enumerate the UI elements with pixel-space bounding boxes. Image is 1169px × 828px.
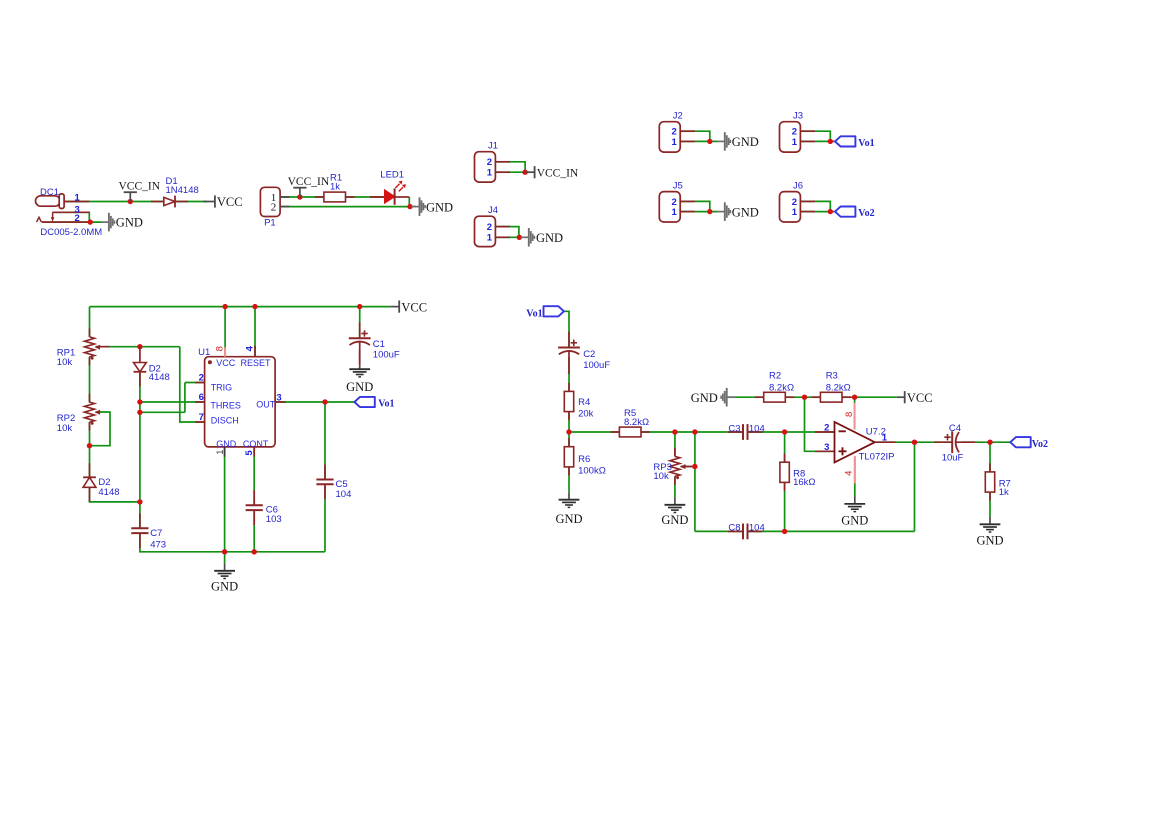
junction RP3 node — [672, 429, 677, 434]
wire J1 pin1 to VCC_IN — [495, 171, 530, 173]
svg-text:1: 1 — [792, 137, 798, 148]
wire C4 to Vo2 — [962, 441, 1010, 443]
junction rail node pin8 — [222, 304, 227, 309]
svg-text:Vo1: Vo1 — [378, 399, 394, 410]
wire R5 to C3 — [641, 431, 743, 433]
junction LED GND node — [407, 204, 412, 209]
junction OUT node — [322, 399, 327, 404]
svg-text:Vo2: Vo2 — [858, 208, 874, 219]
junction DC1 VCC_IN node — [128, 199, 133, 204]
svg-text:VCC: VCC — [401, 300, 427, 314]
wire R8 top — [784, 432, 786, 462]
wire bottom to C8 — [695, 530, 743, 532]
svg-text:Vo1: Vo1 — [526, 309, 542, 320]
potentiometer RP2 — [57, 394, 100, 434]
svg-text:GND: GND — [116, 216, 143, 230]
wire C5 to bottom rail — [324, 484, 326, 552]
wire node to R5 — [569, 431, 619, 433]
wire RP3 riser — [674, 432, 676, 456]
svg-text:GND: GND — [661, 513, 688, 527]
svg-text:U7.2: U7.2 — [866, 427, 886, 438]
svg-text:Vo2: Vo2 — [1032, 439, 1048, 450]
wire RP3 wiper net — [681, 466, 695, 468]
svg-text:473: 473 — [150, 539, 166, 550]
resistor R1 — [315, 172, 355, 202]
junction output node — [912, 440, 917, 445]
svg-text:TRIG: TRIG — [211, 382, 233, 392]
svg-text:LED1: LED1 — [380, 169, 404, 180]
svg-text:C1: C1 — [373, 339, 385, 350]
svg-text:GND: GND — [976, 534, 1003, 548]
resistor R4 — [564, 383, 593, 420]
wire TRIG wire — [185, 382, 205, 384]
svg-text:R3: R3 — [826, 371, 838, 382]
wire node column down to C7 — [139, 402, 141, 528]
resistor R3 — [811, 371, 851, 402]
svg-text:C3: C3 — [728, 423, 740, 434]
wire P1 pin1 to R1 — [280, 196, 384, 198]
wire J3 pin2 bend — [800, 131, 830, 141]
junction RP2 bottom node — [87, 443, 92, 448]
LED LED1 — [370, 169, 409, 204]
wire P1 pin2 bottom to GND — [280, 206, 416, 208]
svg-text:5: 5 — [244, 450, 255, 456]
svg-text:C8: C8 — [728, 523, 740, 534]
junction bias node — [802, 395, 807, 400]
junction Vo2 node — [987, 440, 992, 445]
wire OUT to C5 — [324, 402, 326, 480]
svg-text:VCC: VCC — [216, 358, 236, 368]
junction rail node pin4 — [252, 304, 257, 309]
svg-text:C2: C2 — [583, 349, 595, 360]
svg-text:RESET: RESET — [241, 358, 272, 368]
ground — [346, 366, 373, 395]
svg-text:1: 1 — [672, 207, 678, 218]
junction J2 node — [707, 139, 712, 144]
svg-text:J5: J5 — [673, 180, 683, 191]
potentiometer RP3 — [653, 448, 695, 485]
capacitor C8 — [728, 523, 765, 540]
power port VCC — [897, 391, 933, 405]
wire U1 GND pin down — [224, 447, 226, 552]
resistor R7 — [985, 463, 1011, 500]
svg-text:1: 1 — [487, 168, 493, 179]
wire R4 to node — [568, 412, 570, 447]
svg-text:DC1: DC1 — [40, 187, 59, 198]
svg-text:2: 2 — [487, 222, 492, 233]
wire CONT to C6 — [253, 447, 255, 505]
svg-text:8.2kΩ: 8.2kΩ — [826, 382, 851, 393]
wire RP1 wiper net — [96, 346, 180, 348]
svg-text:16kΩ: 16kΩ — [793, 477, 815, 488]
svg-text:GND: GND — [346, 380, 373, 394]
ground — [841, 497, 868, 528]
svg-text:10k: 10k — [57, 423, 73, 434]
svg-text:R2: R2 — [769, 371, 781, 382]
ground — [412, 197, 454, 216]
svg-text:1: 1 — [215, 450, 225, 455]
svg-text:10k: 10k — [57, 357, 73, 368]
connector J6 — [780, 180, 816, 222]
wire C6 to bottom rail — [253, 510, 255, 552]
svg-text:GND: GND — [732, 135, 759, 149]
power port VCC_IN — [119, 181, 161, 202]
net flag Vo2 — [835, 207, 875, 220]
junction bottom rail node2 — [252, 549, 257, 554]
svg-text:10uF: 10uF — [942, 453, 964, 464]
junction P1 VCC_IN node — [297, 194, 302, 199]
svg-text:100uF: 100uF — [583, 360, 610, 371]
connector J5 — [659, 180, 695, 222]
wire C8 to output column — [748, 530, 915, 532]
svg-text:CONT: CONT — [243, 439, 269, 449]
junction J4 node — [517, 235, 522, 240]
svg-text:J4: J4 — [488, 205, 498, 216]
junction DC1 GND node — [88, 219, 93, 224]
capacitor C4 — [934, 423, 975, 464]
power port VCC_IN — [526, 166, 579, 180]
svg-text:1: 1 — [672, 137, 678, 148]
wire gnd drop 555 — [224, 552, 226, 564]
svg-text:2: 2 — [487, 157, 492, 168]
ground — [717, 202, 759, 221]
diode D1 — [151, 176, 199, 208]
wire R3 to VCC — [842, 396, 897, 398]
potentiometer RP1 — [57, 328, 110, 368]
svg-text:1: 1 — [75, 192, 81, 203]
svg-text:GND: GND — [732, 205, 759, 219]
svg-text:4: 4 — [245, 345, 256, 351]
junction D2 C7 node — [137, 499, 142, 504]
svg-text:1k: 1k — [330, 181, 340, 192]
wire C1 riser — [359, 307, 361, 339]
ground — [661, 497, 688, 527]
wire output to C4 — [875, 441, 952, 443]
junction TRIG node — [137, 410, 142, 415]
svg-text:DISCH: DISCH — [211, 415, 239, 425]
svg-text:GND: GND — [536, 231, 563, 245]
svg-text:1: 1 — [792, 207, 798, 218]
svg-text:GND: GND — [426, 200, 453, 214]
svg-text:P1: P1 — [264, 218, 276, 229]
svg-text:6: 6 — [199, 392, 204, 403]
wire THRES wire — [140, 401, 205, 403]
wire D2 cathode to THRES node — [139, 372, 141, 402]
svg-text:4: 4 — [844, 471, 855, 476]
svg-text:J6: J6 — [793, 180, 803, 191]
wire bottom rail 555 — [140, 533, 325, 551]
net flag Vo2 — [1010, 437, 1048, 450]
svg-text:J2: J2 — [673, 111, 683, 122]
ground — [717, 132, 759, 151]
svg-text:GND: GND — [216, 439, 237, 449]
junction J6 node — [828, 209, 833, 214]
junction J5 node — [707, 209, 712, 214]
wire R6 to gnd — [568, 467, 570, 492]
ground — [976, 517, 1003, 548]
svg-text:GND: GND — [555, 512, 582, 526]
svg-text:10k: 10k — [653, 471, 669, 482]
svg-text:VCC: VCC — [217, 195, 243, 209]
svg-text:20k: 20k — [578, 408, 594, 419]
wire DC1 pin1 to VCC net — [64, 201, 207, 203]
svg-text:3: 3 — [824, 442, 829, 453]
wire link to TRIG — [184, 383, 186, 413]
svg-text:C7: C7 — [150, 528, 162, 539]
wire RP2 to D2 bar — [89, 422, 91, 477]
connector P1 — [260, 187, 289, 228]
svg-text:THRES: THRES — [210, 400, 241, 410]
junction R4 R6 node — [566, 429, 571, 434]
svg-text:VCC_IN: VCC_IN — [537, 168, 579, 180]
svg-text:1k: 1k — [999, 487, 1009, 498]
svg-text:3: 3 — [276, 393, 281, 404]
power port VCC_IN — [288, 176, 330, 197]
ground — [521, 228, 563, 247]
connector J2 — [659, 111, 695, 153]
wire RP3 to gnd — [674, 476, 676, 497]
connector J1 — [475, 141, 511, 183]
svg-text:J1: J1 — [488, 141, 498, 152]
net flag Vo1 — [526, 306, 564, 319]
svg-text:GND: GND — [691, 391, 718, 405]
svg-text:8.2kΩ: 8.2kΩ — [769, 382, 794, 393]
wire DC1 pin2 to GND — [42, 221, 102, 223]
svg-text:8: 8 — [844, 412, 855, 417]
resistor R2 — [755, 371, 795, 402]
junction R8 top node — [782, 429, 787, 434]
junction RP3 wiper node — [692, 464, 697, 469]
resistor R8 — [780, 454, 816, 491]
svg-text:1N4148: 1N4148 — [166, 185, 199, 196]
wire J6 pin1 to Vo2 flag — [800, 211, 835, 213]
svg-text:VCC: VCC — [907, 391, 933, 405]
wire R7 riser — [989, 442, 991, 471]
wire cross link — [140, 411, 185, 413]
svg-text:104: 104 — [749, 523, 765, 534]
wire J5 pin2 bend — [680, 201, 710, 211]
wire R7 to gnd — [989, 492, 991, 517]
DC jack DC1 — [36, 187, 103, 238]
wire U1 pin8 riser — [224, 307, 226, 357]
svg-text:7: 7 — [199, 412, 204, 423]
wire C2 to R4 — [568, 357, 570, 391]
ground — [211, 563, 238, 593]
svg-text:100kΩ: 100kΩ — [578, 465, 606, 476]
wire J1 pin2 bend — [495, 162, 525, 172]
svg-text:100uF: 100uF — [373, 350, 400, 361]
junction J1 node — [522, 170, 527, 175]
wire OUT to Vo1 — [275, 401, 354, 403]
svg-text:8.2kΩ: 8.2kΩ — [624, 417, 649, 428]
wire VCC rail 555 — [90, 306, 391, 308]
ground — [101, 213, 143, 232]
resistor R6 — [564, 438, 606, 476]
capacitor C7 — [131, 513, 166, 550]
svg-text:GND: GND — [841, 514, 868, 528]
wire output feedback drop — [914, 442, 916, 531]
svg-text:4148: 4148 — [149, 372, 170, 383]
capacitor C1 — [349, 322, 400, 365]
svg-text:DC005-2.0MM: DC005-2.0MM — [40, 227, 102, 238]
capacitor C2 — [558, 332, 610, 375]
svg-text:TL072IP: TL072IP — [859, 452, 895, 463]
wire LED1 cathode bend — [408, 197, 410, 207]
wire DC1 pin3 bend — [53, 212, 90, 222]
junction feedback top node — [692, 429, 697, 434]
wire GND to R2 — [727, 396, 764, 398]
IC U1 NE555 — [195, 345, 285, 456]
wire opamp pin4 drop — [854, 458, 856, 497]
wire left column top — [89, 307, 91, 337]
junction bottom rail node1 — [222, 549, 227, 554]
wire J2 pin2 bend — [680, 131, 710, 141]
svg-text:OUT: OUT — [256, 400, 276, 410]
wire J4 pin2 bend — [495, 227, 519, 238]
capacitor C3 — [728, 423, 765, 440]
junction RP1 wiper node — [137, 344, 142, 349]
wire RP1 to RP2 — [89, 357, 91, 403]
resistor R5 — [610, 408, 650, 437]
svg-text:R6: R6 — [578, 454, 590, 465]
net flag Vo1 — [835, 136, 875, 149]
svg-text:1: 1 — [487, 233, 493, 244]
wire opamp pin8 riser — [854, 397, 856, 429]
wire D2 to C7 node — [90, 487, 140, 502]
svg-text:2: 2 — [75, 213, 80, 224]
svg-text:2: 2 — [824, 423, 829, 434]
ground — [555, 492, 582, 526]
connector J4 — [475, 205, 511, 247]
svg-text:4148: 4148 — [98, 487, 119, 498]
wire C3 to opamp in- — [748, 431, 835, 433]
svg-text:J3: J3 — [793, 111, 803, 122]
power port VCC — [390, 300, 427, 314]
wire Vo1 to C2 — [564, 311, 569, 347]
power port VCC — [203, 195, 242, 209]
wire J2 pin1 to GND — [680, 140, 717, 142]
svg-text:2: 2 — [271, 202, 277, 214]
svg-text:2: 2 — [199, 372, 204, 383]
junction rail node C1 — [357, 304, 362, 309]
wire C1 to gnd — [359, 350, 361, 366]
wire R8 bottom — [784, 482, 786, 531]
junction R8 bottom node — [782, 529, 787, 534]
svg-text:8: 8 — [215, 346, 226, 351]
wire RP2 wiper loop — [90, 412, 111, 446]
capacitor C5 — [316, 465, 351, 500]
svg-text:103: 103 — [266, 514, 282, 525]
wire U1 pin4 riser — [254, 307, 256, 357]
wire bias to opamp in+ — [805, 397, 835, 451]
junction THRES node — [137, 399, 142, 404]
op-amp U7.2 TL072IP — [815, 403, 895, 484]
connector J3 — [780, 111, 816, 153]
wire R2 to R3 — [786, 396, 821, 398]
wire wiper to DISCH — [180, 347, 205, 422]
junction vcc node opamp — [852, 395, 857, 400]
wire J6 pin2 bend — [800, 201, 830, 211]
svg-text:Vo1: Vo1 — [858, 138, 874, 149]
diode D2 — [134, 347, 170, 387]
wire J5 pin1 to GND — [680, 211, 717, 213]
svg-text:GND: GND — [211, 580, 238, 594]
svg-text:104: 104 — [336, 489, 352, 500]
svg-text:C4: C4 — [949, 423, 961, 434]
junction J3 node — [828, 139, 833, 144]
wire J3 pin1 to Vo1 flag — [800, 140, 835, 142]
capacitor C6 — [246, 490, 282, 525]
svg-text:104: 104 — [749, 423, 765, 434]
ground — [691, 388, 735, 407]
svg-text:VCC_IN: VCC_IN — [288, 176, 330, 188]
svg-text:R4: R4 — [578, 397, 590, 408]
wire J4 pin1 to GND — [495, 236, 522, 238]
net flag Vo1 — [354, 397, 394, 410]
diode D2 — [83, 463, 119, 502]
svg-text:VCC_IN: VCC_IN — [119, 181, 161, 193]
svg-text:U1: U1 — [198, 347, 210, 358]
wire feedback column — [694, 432, 696, 531]
